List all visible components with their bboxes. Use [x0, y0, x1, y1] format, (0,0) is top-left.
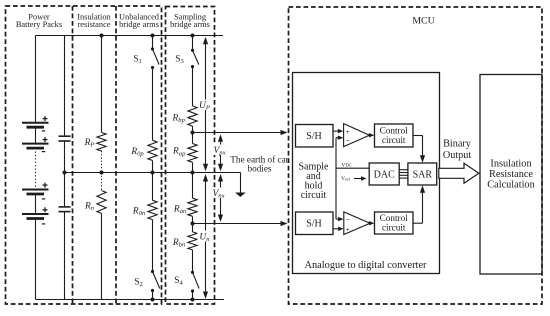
resistor R0n — [148, 200, 157, 219]
wire: capacitor branch upper — [64, 36, 66, 137]
node: sampling branch on bottom rail — [191, 298, 195, 302]
wire: negative bottom rail — [36, 299, 225, 301]
svg-text:circuit: circuit — [382, 135, 406, 145]
node: lower tap (Vnx) — [191, 222, 195, 226]
svg-text:Analogue to digital converter: Analogue to digital converter — [304, 260, 427, 271]
voltage arrow Up (top rail to earth rail) — [205, 43, 207, 165]
wire: Rn lower lead — [101, 214, 103, 300]
svg-text:Control: Control — [380, 126, 409, 136]
wire: battery bottom lead — [35, 219, 37, 300]
wire: Ran to lower tap — [192, 216, 194, 223]
svg-text:Calculation: Calculation — [487, 180, 534, 191]
block arrow: Binary Output to calculation — [439, 163, 479, 183]
wire: S2 to bottom rail — [152, 291, 154, 300]
node: upper tap (Vpx) — [191, 131, 195, 135]
svg-text:bodies: bodies — [248, 164, 272, 174]
resistor Rbp — [188, 106, 197, 126]
wire: B3-B4 link — [35, 194, 37, 214]
box: Control circuit (upper) — [375, 124, 414, 147]
wire: chassis earth middle rail — [65, 172, 241, 174]
battery cell B1 — [22, 122, 49, 124]
resistor Rp — [97, 133, 106, 152]
wire: S3 to Rbp — [192, 67, 194, 106]
svg-text:Control: Control — [380, 213, 409, 223]
dashed box: Power Battery Packs / Insulation resistance / Unbalanced bridge arms — [6, 6, 162, 304]
arrow: S/H to comparator + input (lower) — [333, 228, 339, 230]
svg-text:+: + — [346, 129, 350, 136]
node: unbalanced branch on earth rail — [151, 171, 155, 175]
resistor Rbn — [188, 232, 197, 250]
voltage arrow Vnx (earth rail to lower tap) — [220, 181, 222, 217]
op-amp U2 (lower comparator) — [344, 212, 370, 235]
wire: R0p to earth rail — [152, 161, 154, 173]
dashed box: Sampling bridge arms — [166, 7, 215, 305]
wire: S1 to R0p — [152, 68, 154, 141]
arrow: Vref into DAC — [354, 178, 362, 180]
wire: lower control circuit to SAR — [413, 222, 423, 224]
svg-text:circuit: circuit — [382, 223, 406, 233]
node: Rp branch on top rail — [100, 34, 104, 38]
label Vpx — [212, 145, 229, 156]
wire: Rp upper lead — [101, 36, 103, 133]
wire: S4 to bottom rail — [192, 291, 194, 300]
voltage arrow Vpx (upper tap to earth rail) — [220, 139, 222, 166]
switch S3 — [191, 49, 194, 52]
ground symbol (earth of car bodies) — [235, 193, 246, 198]
wire: top rail to S3 — [192, 36, 194, 51]
capacitor C1 (positive rail to earth) — [59, 135, 71, 137]
wire: Rap upper lead — [192, 133, 194, 144]
resistor Ran — [188, 198, 197, 216]
wire: Rbn upper lead — [192, 224, 194, 232]
dashed box: MCU — [289, 7, 543, 304]
battery cell B3 — [22, 189, 49, 191]
node: sampling branch on top rail — [191, 34, 195, 38]
wire: Rbp to tap node — [192, 126, 194, 132]
wire: capacitor branch middle — [64, 141, 66, 207]
node: Rp/Rn on earth rail — [100, 171, 104, 175]
svg-text:Battery Packs: Battery Packs — [16, 20, 62, 29]
svg-text:Binary: Binary — [443, 139, 472, 150]
node: sampling branch on earth rail — [191, 171, 195, 175]
box: DAC — [369, 163, 399, 185]
wire: B1-B2 link — [35, 127, 37, 143]
svg-text:bridge arms: bridge arms — [170, 20, 210, 29]
resistor Rap — [188, 144, 197, 163]
label Vnx — [211, 188, 228, 199]
switch S2 — [151, 270, 154, 273]
label Un — [198, 231, 211, 242]
battery cell B4 — [22, 213, 49, 215]
svg-text:circuit: circuit — [301, 190, 327, 201]
svg-text:bridge arms: bridge arms — [119, 20, 159, 29]
svg-text:Insulation: Insulation — [490, 159, 531, 170]
box: S/H (upper sample and hold) — [296, 125, 334, 148]
wire: Rbn to S4 — [192, 250, 194, 272]
box: SAR — [408, 163, 437, 185]
svg-text:Resistance: Resistance — [489, 169, 533, 180]
svg-text:resistance: resistance — [77, 20, 110, 29]
label Up — [199, 100, 211, 111]
op-amp U1 (upper comparator) — [344, 124, 370, 147]
wire: Rap to earth rail — [192, 162, 194, 172]
svg-text:+: + — [346, 226, 350, 233]
svg-text:MCU: MCU — [412, 16, 434, 27]
resistor Rn — [97, 191, 106, 214]
wire: capacitor branch lower — [64, 212, 66, 300]
voltage arrow Un (earth rail to bottom rail) — [205, 180, 207, 293]
capacitor C2 (negative rail to earth) — [59, 206, 71, 208]
arrow: S/H to comparator + input — [333, 130, 339, 132]
svg-text:Vref: Vref — [341, 176, 350, 182]
dotted wire: Rp to earth rail — [101, 151, 103, 173]
node: unbalanced branch on top rail — [151, 34, 155, 38]
wire: earth rail drop to ground symbol — [240, 173, 242, 193]
wire: lower tap line to S/H — [193, 223, 282, 225]
wire: earth rail to Ran — [192, 173, 194, 199]
svg-text:SAR: SAR — [413, 170, 433, 181]
arrow: comparator to control circuit (upper) — [369, 134, 371, 136]
svg-text:S/H: S/H — [306, 131, 322, 142]
switch S4 — [191, 271, 194, 274]
box: Control circuit (lower) — [375, 212, 414, 234]
wire: battery top lead — [35, 36, 37, 123]
resistor R0p — [148, 140, 157, 160]
svg-text:−: − — [346, 138, 350, 145]
svg-text:S/H: S/H — [306, 219, 322, 230]
box: Analogue to digital converter — [293, 73, 440, 274]
wire: upper tap line to S/H — [193, 132, 282, 134]
wire: DAC output bus to comparators — [335, 138, 337, 219]
arrow: comparator to control circuit (lower) — [370, 222, 371, 224]
wire: earth rail to R0n — [152, 173, 154, 201]
wire: upper control circuit to SAR — [413, 135, 423, 137]
wire: R0n to S2 — [152, 220, 154, 272]
svg-text:−: − — [346, 217, 350, 224]
switch S1 — [151, 47, 154, 50]
node: capacitor branch on earth rail — [63, 171, 67, 175]
battery cell B2 — [22, 143, 49, 145]
dotted wire: earth rail to Rn — [101, 173, 103, 191]
wire: positive top rail — [36, 35, 224, 37]
box: S/H (lower sample and hold) — [296, 212, 334, 235]
box: Insulation Resistance Calculation — [480, 75, 542, 275]
svg-text:Output: Output — [443, 150, 471, 161]
bus lines between DAC and SAR — [399, 169, 408, 171]
node: unbalanced branch on bottom rail — [151, 298, 155, 302]
dotted ellipsis in battery stack — [35, 152, 37, 188]
wire: top rail to S1 — [152, 36, 154, 50]
dashed divider between Insulation resistance and Unbalanced bridge arms — [115, 6, 117, 304]
svg-text:DAC: DAC — [374, 170, 395, 181]
dashed divider between Power Battery Packs and Insulation resistance — [72, 6, 74, 304]
